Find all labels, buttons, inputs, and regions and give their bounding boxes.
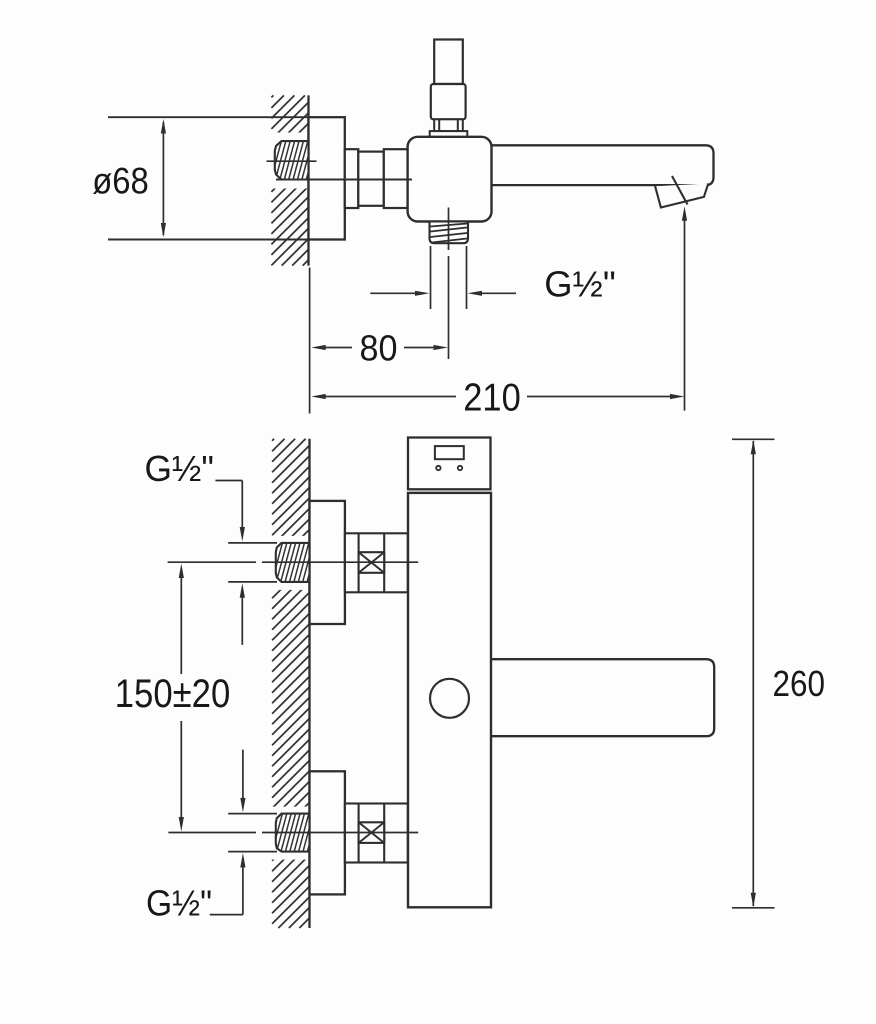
aerator at spout tip xyxy=(655,176,708,208)
G1/2 dimension arrows (side) xyxy=(370,291,516,296)
separator line under control box xyxy=(409,492,490,494)
o68 extension lines xyxy=(108,116,309,118)
top check valve xyxy=(345,533,408,592)
wall hole clearances xyxy=(267,536,310,590)
spout (side view) xyxy=(490,145,714,185)
neck step C xyxy=(384,149,408,208)
bottom inlet centerline xyxy=(168,832,418,834)
spout tip extension line with up arrow xyxy=(682,206,687,410)
bottom wall flange (front view) xyxy=(310,771,345,894)
svg-text:G½": G½" xyxy=(146,883,212,924)
wall thread (side view) xyxy=(275,141,309,179)
wall face line (front) xyxy=(308,439,310,928)
thread centerline (side) xyxy=(267,160,317,162)
svg-text:G½": G½" xyxy=(144,448,214,489)
svg-text:ø68: ø68 xyxy=(92,161,149,202)
faucet body (front view) xyxy=(408,493,491,907)
outlet thread below body xyxy=(430,222,469,244)
temperature knob circle xyxy=(430,679,469,718)
top thread diameter ticks xyxy=(228,543,277,582)
neck step A xyxy=(345,149,359,208)
faucet body (side view) xyxy=(408,137,492,222)
wall hatched section (front view) xyxy=(272,439,309,928)
control box with display xyxy=(408,438,491,490)
bottom thread diameter ticks xyxy=(228,814,277,852)
top G1/2 label and leader xyxy=(144,448,244,645)
svg-text:80: 80 xyxy=(360,328,398,369)
top wall flange (front view) xyxy=(310,501,345,624)
union axis line xyxy=(276,179,412,181)
G1/2 extension lines (side) xyxy=(431,246,467,309)
wall face line (side) xyxy=(307,95,309,265)
wall flange (side view) xyxy=(309,117,345,239)
cartridge collar xyxy=(434,119,463,131)
svg-text:210: 210 xyxy=(463,376,521,419)
210 dimension xyxy=(311,394,684,399)
top wall thread (front view) xyxy=(276,543,310,582)
bottom wall thread (front view) xyxy=(276,814,310,852)
spout (front view) xyxy=(490,659,714,736)
cartridge mid section xyxy=(431,84,466,119)
bottom G1/2 label and leader xyxy=(146,750,246,924)
outlet centerline xyxy=(448,208,450,360)
cartridge stem xyxy=(434,40,463,85)
svg-text:260: 260 xyxy=(773,663,826,704)
svg-text:150±20: 150±20 xyxy=(115,672,231,716)
150+-20 dimension xyxy=(115,564,231,832)
wall hatched section (side view) xyxy=(271,95,308,265)
bottom check valve xyxy=(345,804,408,863)
260 dimension xyxy=(732,439,825,908)
80 dimension xyxy=(311,345,448,350)
neck step B xyxy=(358,152,384,206)
top inlet centerline xyxy=(168,561,419,563)
wall hole clearance xyxy=(266,133,309,189)
wall face extension line (down) xyxy=(309,268,311,414)
o68 dimension line with arrows xyxy=(161,119,166,238)
svg-text:G½": G½" xyxy=(544,264,616,305)
cartridge base nut xyxy=(430,131,468,137)
